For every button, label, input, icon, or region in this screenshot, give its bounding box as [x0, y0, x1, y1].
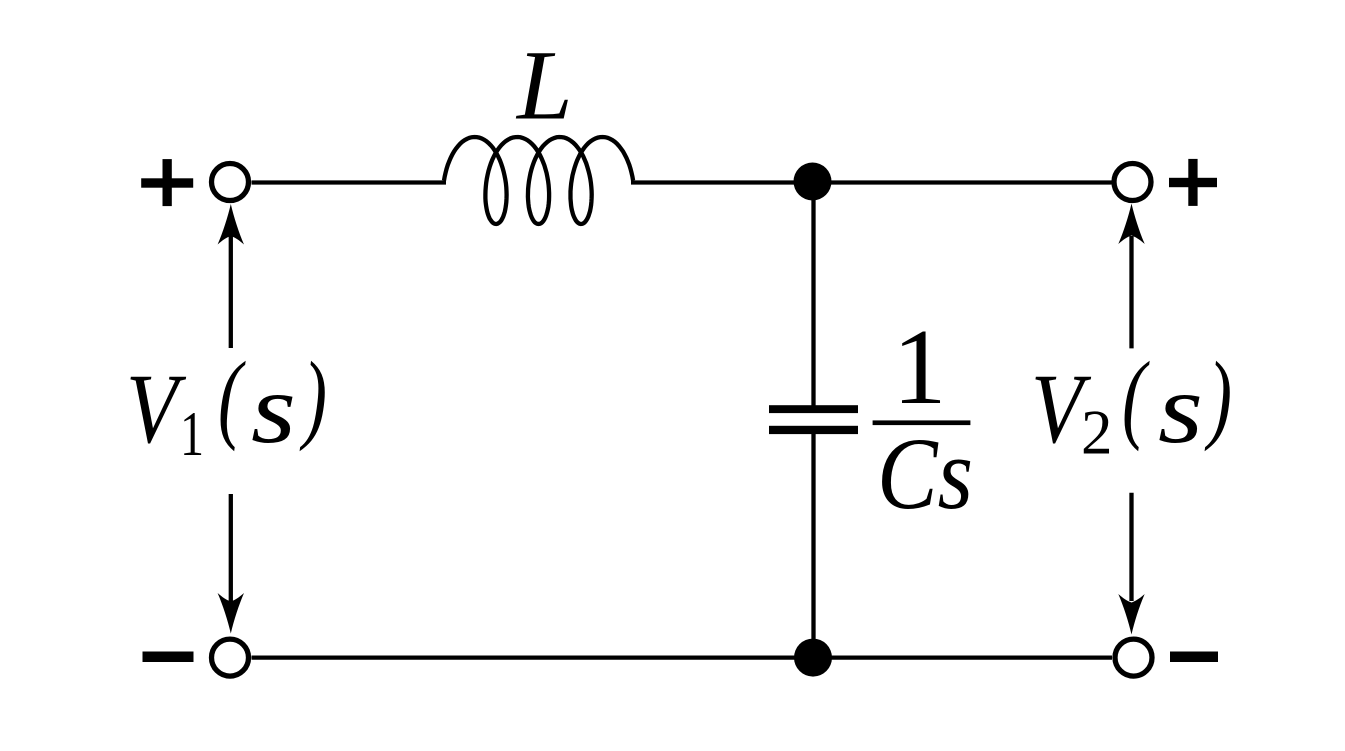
- svg-text:s: s: [1158, 353, 1203, 464]
- V1 arrow up shaft: [229, 236, 233, 348]
- svg-text:1: 1: [180, 398, 204, 469]
- svg-text:V: V: [126, 353, 186, 464]
- plus sign top-left: [141, 159, 193, 206]
- V1 arrow up head: [218, 204, 244, 245]
- capacitor C bottom plate: [769, 426, 858, 434]
- node junction dot top: [794, 163, 832, 201]
- label V2(s): [1031, 341, 1232, 468]
- wire capacitor to bottom node: [811, 432, 815, 658]
- label V1(s): [126, 341, 327, 469]
- terminal top-right (V2 +): [1114, 164, 1151, 201]
- svg-text:): ): [299, 341, 327, 452]
- V2 arrow up head: [1118, 204, 1144, 245]
- inductor L: [444, 137, 633, 224]
- terminal bottom-left (V1 -): [212, 639, 249, 676]
- svg-text:(: (: [1122, 341, 1150, 452]
- wire top-left segment: [252, 180, 447, 184]
- capacitor C top plate: [769, 405, 858, 413]
- V1 arrow down head: [218, 593, 244, 634]
- svg-text:L: L: [515, 29, 573, 140]
- svg-text:(: (: [218, 341, 246, 452]
- minus sign bottom-left: [143, 652, 194, 663]
- wire top-right segment: [631, 180, 1112, 184]
- value label 1/Cs fraction bar: [873, 420, 971, 425]
- wire bottom: [252, 655, 1113, 659]
- wire node to capacitor: [811, 182, 815, 407]
- V2 arrow up shaft: [1129, 236, 1133, 348]
- V2 arrow down shaft: [1129, 493, 1133, 601]
- minus sign bottom-right: [1170, 652, 1218, 663]
- terminal bottom-right (V2 -): [1115, 639, 1152, 676]
- svg-text:): ): [1204, 341, 1232, 452]
- terminal top-left (V1 +): [212, 164, 249, 201]
- svg-text:Cs: Cs: [877, 417, 973, 531]
- svg-text:1: 1: [893, 308, 947, 427]
- svg-text:2: 2: [1081, 398, 1113, 468]
- node junction dot bottom: [794, 639, 832, 677]
- svg-text:s: s: [251, 353, 296, 464]
- V2 arrow down head: [1118, 594, 1144, 635]
- plus sign top-right: [1169, 159, 1217, 206]
- V1 arrow down shaft: [229, 494, 233, 602]
